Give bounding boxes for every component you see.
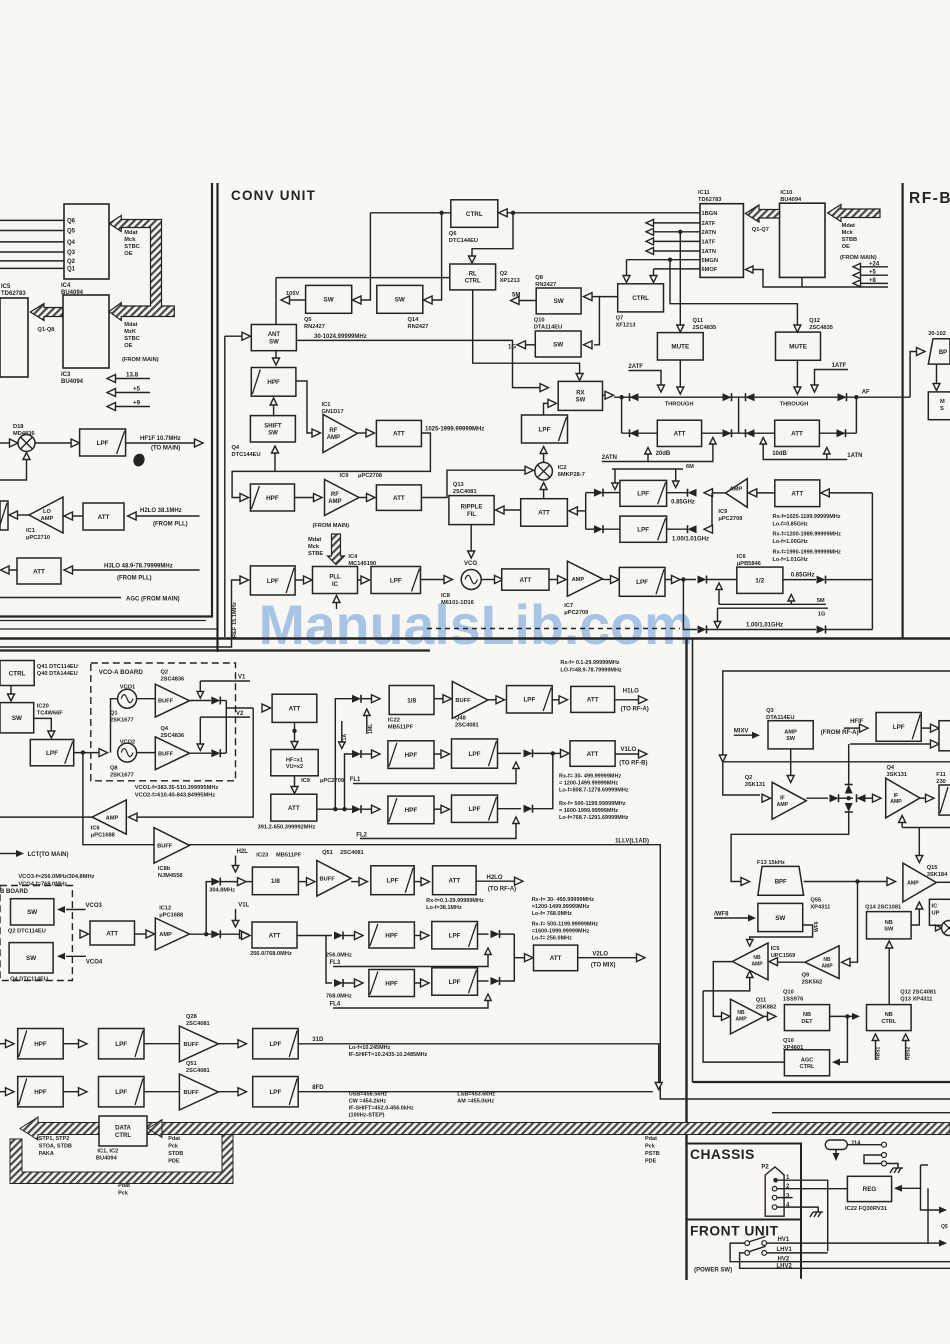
- svg-text:2SC4081: 2SC4081: [340, 850, 364, 856]
- svg-text:H1LO: H1LO: [623, 689, 639, 695]
- svg-text:Q6: Q6: [449, 231, 457, 237]
- dashed net line: [427, 628, 680, 630]
- svg-text:VCO3-f=256.0MHz/304.8MHz: VCO3-f=256.0MHz/304.8MHz: [18, 874, 94, 880]
- svg-text:ATT: ATT: [674, 431, 686, 438]
- wire under Q4: [902, 827, 950, 829]
- svg-text:2SK882: 2SK882: [756, 1005, 777, 1011]
- svg-text:AMP: AMP: [730, 487, 743, 493]
- svg-text:LPF: LPF: [267, 578, 279, 585]
- svg-text:Rx-f= 30- 499.99999MHz: Rx-f= 30- 499.99999MHz: [559, 774, 621, 780]
- svg-text:ATT: ATT: [550, 955, 562, 962]
- svg-text:Q41 DTC114EU: Q41 DTC114EU: [37, 664, 78, 670]
- 31D output line: [298, 1044, 659, 1083]
- svg-text:SW: SW: [27, 909, 37, 916]
- svg-text:Mdat: Mdat: [842, 223, 855, 229]
- wire NB DET down to AGC CTRL: [839, 1016, 847, 1062]
- wire 105V out of SW Q5: [290, 299, 306, 301]
- svg-text:Lo-f=808.7-1278.69999MHz: Lo-f=808.7-1278.69999MHz: [559, 788, 629, 794]
- svg-text:Q6: Q6: [67, 218, 76, 224]
- power switch 1: [745, 1241, 750, 1246]
- svg-text:B BOARD: B BOARD: [0, 889, 29, 895]
- wire RL CTRL to RX SW: [473, 290, 580, 374]
- low pass filter 256MHz: [432, 922, 478, 949]
- attenuator ATT V2LO: [534, 945, 578, 971]
- svg-text:10dB: 10dB: [772, 451, 787, 457]
- high pass filter FL1 row: [388, 741, 434, 769]
- svg-text:256.0/768.0MHz: 256.0/768.0MHz: [250, 951, 292, 957]
- svg-text:μPC2709: μPC2709: [718, 516, 742, 522]
- svg-text:(FROM MAIN): (FROM MAIN): [313, 523, 350, 529]
- svg-text:1BGN: 1BGN: [702, 211, 718, 217]
- svg-text:2ATF: 2ATF: [702, 221, 716, 227]
- NBS1 NBS2 inputs: [875, 1040, 877, 1060]
- svg-text:AMP: AMP: [735, 1017, 747, 1023]
- svg-text:VCO4: VCO4: [86, 960, 103, 966]
- svg-text:1/2: 1/2: [755, 578, 764, 585]
- svg-text:CTRL: CTRL: [466, 211, 483, 218]
- svg-text:D18: D18: [13, 424, 23, 430]
- svg-text:REF 15.1MHz: REF 15.1MHz: [232, 602, 238, 638]
- svg-text:OE: OE: [842, 244, 850, 250]
- middle/right unit separator border: [685, 639, 687, 1281]
- svg-text:Q48: Q48: [455, 716, 466, 722]
- mixer box at right edge: [939, 721, 950, 751]
- svg-text:Q10: Q10: [783, 990, 794, 996]
- J14 arrow down: [835, 1150, 837, 1155]
- MIX SW box RF-B: [928, 392, 950, 420]
- RX SW output diode row THROUGH line 1: [603, 394, 607, 396]
- svg-text:ATT: ATT: [587, 751, 599, 758]
- svg-text:AGC: AGC: [801, 1057, 813, 1063]
- svg-text:Q2: Q2: [500, 271, 508, 277]
- hatched data bus lower loop: [10, 1135, 233, 1184]
- IC UPC box at right edge: [929, 899, 950, 925]
- svg-text:IF: IF: [894, 793, 899, 799]
- svg-text:Pdat: Pdat: [168, 1136, 180, 1142]
- PLL reference wire REF 15.1MHz: [0, 580, 240, 647]
- high pass filter HPF 1: [251, 368, 296, 397]
- svg-text:LPF: LPF: [115, 1089, 127, 1096]
- svg-text:HPF: HPF: [266, 495, 279, 502]
- switch SW Q55 XP4311: [758, 903, 803, 931]
- attenuator ATT after RF AMP: [358, 432, 367, 434]
- LCT output arrow: [0, 853, 16, 855]
- svg-text:2ATN: 2ATN: [702, 230, 716, 236]
- svg-text:6MKP28-7: 6MKP28-7: [558, 472, 585, 478]
- mixer IC2 6MKP28-7: [535, 462, 553, 480]
- svg-text:Q9: Q9: [802, 973, 810, 979]
- svg-text:ATT: ATT: [393, 431, 405, 438]
- filter after Q4: [920, 797, 926, 799]
- svg-text:Q1-Q8: Q1-Q8: [37, 327, 54, 333]
- svg-text:AMP: AMP: [907, 880, 919, 886]
- svg-text:5MGN: 5MGN: [702, 258, 718, 264]
- svg-text:VCO-A BOARD: VCO-A BOARD: [99, 669, 144, 676]
- svg-text:Q5: Q5: [304, 317, 312, 323]
- svg-text:Q4: Q4: [161, 726, 169, 732]
- svg-text:PDE: PDE: [645, 1159, 657, 1165]
- wire AGC CTRL output loop: [703, 991, 784, 1062]
- svg-text:8FD: 8FD: [312, 1085, 324, 1091]
- CONV UNIT bottom border: [0, 637, 950, 640]
- diode 256/768 path: [211, 930, 220, 938]
- svg-text:Lo-f=10.245MHz: Lo-f=10.245MHz: [349, 1045, 391, 1051]
- svg-text:LPF: LPF: [469, 806, 481, 813]
- vertical LO return wire: [871, 493, 873, 630]
- wire VCO to ATT divider chain: [481, 579, 494, 581]
- svg-text:CHASSIS: CHASSIS: [690, 1147, 755, 1162]
- svg-text:DTC144EU: DTC144EU: [232, 452, 261, 458]
- svg-text:FL1: FL1: [350, 777, 361, 783]
- svg-text:391.2-650.399992MHz: 391.2-650.399992MHz: [258, 825, 316, 831]
- switch SW VCO4 select Q4 DTC114EU: [9, 943, 53, 973]
- svg-text:MUTE: MUTE: [671, 344, 689, 351]
- svg-text:VCO4-f=768.0MHz: VCO4-f=768.0MHz: [18, 882, 67, 888]
- svg-text:FL3: FL3: [330, 960, 341, 966]
- svg-text:ATT: ATT: [393, 495, 405, 502]
- wire ATT up into mixer: [543, 490, 545, 499]
- high pass filter HPF 2: [250, 484, 294, 511]
- svg-text:+9: +9: [133, 400, 141, 407]
- shunt diode node: [847, 796, 851, 800]
- svg-text:0.85GHz: 0.85GHz: [671, 500, 695, 506]
- wire 2ATN row to MUTE Q11: [678, 230, 682, 234]
- wire ATT2 output row with branches: [317, 808, 352, 810]
- svg-text:Lo-f=1.00GHz: Lo-f=1.00GHz: [773, 539, 809, 545]
- wire to RL CTRL top: [472, 213, 513, 260]
- svg-text:μPC2709: μPC2709: [564, 610, 588, 616]
- V2 control drop: [200, 716, 250, 718]
- svg-text:LPF: LPF: [269, 1089, 281, 1096]
- svg-text:IC5: IC5: [771, 946, 780, 952]
- svg-text:Lo-f=38.1MHz: Lo-f=38.1MHz: [426, 905, 462, 911]
- switch SW Q14 RN2427: [377, 285, 423, 313]
- svg-text:CTRL: CTRL: [115, 1133, 131, 1139]
- svg-text:BUFF: BUFF: [184, 1042, 200, 1048]
- arrow into PLL IC bottom: [336, 601, 338, 609]
- svg-text:2SC4081: 2SC4081: [453, 489, 477, 495]
- low pass filter H2LO: [351, 881, 359, 883]
- attenuator ATT H1LO: [571, 686, 615, 712]
- svg-text:STBC: STBC: [124, 244, 139, 250]
- wire LPF FL2 join: [498, 808, 522, 810]
- wire LPF up to RX SW: [544, 403, 549, 415]
- svg-text:V1LO: V1LO: [621, 747, 637, 753]
- svg-text:Q28: Q28: [186, 1014, 197, 1020]
- svg-text:STP1, STP2: STP1, STP2: [39, 1136, 70, 1142]
- svg-text:1.00/1.01GHz: 1.00/1.01GHz: [746, 623, 783, 629]
- svg-text:μPC2710: μPC2710: [26, 535, 50, 541]
- svg-text:CTRL: CTRL: [465, 279, 481, 285]
- svg-text:IC1: IC1: [322, 402, 331, 408]
- bus wires into IC4: [0, 219, 64, 221]
- svg-text:LPF: LPF: [636, 579, 648, 586]
- svg-text:Q4 DTC114EU: Q4 DTC114EU: [10, 977, 48, 983]
- svg-text:AMP: AMP: [890, 799, 902, 805]
- power jack contacts: [847, 1144, 881, 1146]
- svg-text:RN2427: RN2427: [408, 324, 429, 330]
- wire to PLL IC: [295, 579, 304, 581]
- divider 1/8 IC22 MB511PF: [389, 686, 434, 715]
- wire 256 LPF output diode: [478, 933, 489, 935]
- svg-text:NBS2: NBS2: [906, 1046, 912, 1060]
- svg-text:HPF: HPF: [405, 752, 418, 759]
- svg-text:BUFF: BUFF: [184, 1090, 200, 1096]
- switch SW IC20 TC4W66F: [0, 703, 34, 733]
- RX SW: [558, 381, 602, 410]
- svg-text:SW: SW: [395, 297, 405, 304]
- wire H2LO input: [128, 512, 137, 520]
- amplifier AMP IC12: [135, 933, 148, 935]
- svg-text:Mck: Mck: [124, 237, 136, 243]
- svg-text:Q8: Q8: [110, 766, 118, 772]
- svg-text:+24: +24: [869, 261, 880, 267]
- svg-text:SW: SW: [554, 298, 564, 305]
- CONV UNIT left border: [216, 183, 218, 652]
- svg-text:ATT: ATT: [98, 514, 110, 521]
- svg-text:UPC1569: UPC1569: [771, 953, 796, 959]
- DATA CTRL box: [99, 1116, 147, 1146]
- svg-text:Q3: Q3: [766, 708, 774, 714]
- svg-text:Q1-Q7: Q1-Q7: [752, 227, 769, 233]
- svg-text:AMP: AMP: [572, 577, 585, 583]
- 8FD output line: [298, 1091, 653, 1093]
- svg-text:2SC4836: 2SC4836: [161, 677, 185, 683]
- svg-text:(FROM PLL): (FROM PLL): [117, 576, 152, 582]
- svg-text:IC6: IC6: [91, 826, 100, 832]
- svg-text:6MOF: 6MOF: [702, 267, 718, 273]
- svg-text:NB: NB: [753, 955, 761, 961]
- svg-text:IC20: IC20: [37, 704, 49, 710]
- svg-text:2ATF: 2ATF: [628, 364, 643, 370]
- svg-text:IC23: IC23: [256, 853, 268, 859]
- wire mixer up to LPF: [543, 454, 545, 463]
- AMP IC9 uPC2709 LO: [726, 479, 748, 508]
- svg-text:VCO1-f=383.35-510.399995MHz: VCO1-f=383.35-510.399995MHz: [135, 785, 219, 791]
- svg-text:HF1F 10.7MHz: HF1F 10.7MHz: [140, 436, 181, 442]
- loop wire ATT1 back to HPF2: [232, 433, 430, 498]
- svg-text:LHV1: LHV1: [777, 1247, 793, 1253]
- svg-text:ATT: ATT: [33, 568, 45, 575]
- svg-text:Q51: Q51: [186, 1061, 197, 1067]
- IC11 output row wires: [654, 222, 700, 224]
- wire VCO buffer outputs join: [225, 701, 227, 754]
- wire control to MUTE Q12: [668, 258, 672, 262]
- svg-text:RX: RX: [576, 391, 584, 397]
- svg-text:BP: BP: [939, 350, 947, 356]
- wire into SW Q5: [353, 296, 362, 304]
- hatched bus arrow Mdat/Mck/STBC into IC4 and IC3: [109, 216, 174, 321]
- svg-text:(TO MAIN): (TO MAIN): [151, 446, 180, 452]
- svg-text:CONV UNIT: CONV UNIT: [231, 188, 316, 203]
- control CTRL Q6 DTC144EU: [451, 200, 498, 228]
- LPF pair 0.85GHz filter: [712, 492, 726, 494]
- RF-B unit left border: [901, 183, 903, 639]
- wire LPF out junction: [665, 579, 696, 581]
- wire LPF FL1 to ATT V1LO: [498, 752, 522, 754]
- svg-text:(100Hz-STEP): (100Hz-STEP): [349, 1113, 385, 1119]
- svg-text:Q2: Q2: [161, 670, 169, 676]
- svg-text:CW =454.2kHz: CW =454.2kHz: [349, 1099, 387, 1105]
- svg-text:LPF: LPF: [115, 1041, 127, 1048]
- svg-text:IC: IC: [332, 582, 339, 588]
- svg-text:LCT(TO MAIN): LCT(TO MAIN): [28, 852, 69, 858]
- svg-text:= 1600-1999.99999MHz: = 1600-1999.99999MHz: [559, 808, 618, 814]
- svg-text:HPF: HPF: [34, 1089, 47, 1096]
- AMP Q15 3SK184: [903, 863, 936, 902]
- ground below P2 pin4: [810, 1212, 823, 1217]
- svg-text:V2: V2: [236, 711, 244, 717]
- svg-text:Mck: Mck: [308, 544, 320, 550]
- svg-text:2SC4836: 2SC4836: [161, 733, 185, 739]
- svg-text:SW: SW: [12, 715, 22, 722]
- svg-text:Q55: Q55: [810, 898, 821, 904]
- svg-text:V1L: V1L: [238, 903, 249, 909]
- multiplier HF=x1 VU=x2 IC9 uPC2709: [271, 750, 318, 776]
- svg-text:1/8: 1/8: [407, 697, 416, 704]
- high pass filter 8FD row input: [6, 1088, 15, 1096]
- wire into mixer D18: [0, 442, 10, 444]
- svg-text:SW: SW: [576, 398, 586, 404]
- svg-text:STBE: STBE: [308, 551, 323, 557]
- svg-text:LPF: LPF: [469, 751, 481, 758]
- svg-text:FL4: FL4: [330, 1002, 341, 1008]
- svg-text:VU=x2: VU=x2: [286, 764, 303, 770]
- wire AMP IC12 output junction: [190, 933, 212, 935]
- wire to ATT V2LO: [514, 957, 525, 959]
- svg-text:3SK131: 3SK131: [887, 772, 908, 778]
- bus wire IF: [723, 761, 950, 763]
- low pass filter 8FD out: [218, 1091, 238, 1093]
- VCO-A BOARD dashed box: [91, 663, 236, 781]
- svg-text:105V: 105V: [286, 291, 299, 297]
- svg-text:Q13 XP4311: Q13 XP4311: [900, 997, 932, 1003]
- svg-text:Q10: Q10: [534, 318, 545, 324]
- svg-text:=1200-1499.99999MHz: =1200-1499.99999MHz: [532, 904, 590, 910]
- svg-text:Q1: Q1: [110, 711, 118, 717]
- svg-text:AMP: AMP: [751, 962, 763, 968]
- svg-text:(FROM MAIN): (FROM MAIN): [122, 357, 159, 363]
- svg-text:2SC4081: 2SC4081: [186, 1021, 210, 1027]
- wire 1LLV(L1AD) line: [190, 845, 950, 1099]
- svg-text:(TO RF-A): (TO RF-A): [488, 887, 516, 893]
- svg-text:AMP: AMP: [328, 499, 341, 505]
- diode switches left of LPF pair: [594, 489, 603, 497]
- diode 304.8MHz path: [211, 878, 220, 886]
- svg-text:MzK: MzK: [124, 329, 137, 335]
- svg-text:MIXV: MIXV: [734, 729, 749, 735]
- svg-text:THROUGH: THROUGH: [665, 402, 694, 408]
- svg-text:STBC: STBC: [124, 336, 139, 342]
- low pass filter after AMP IC7: [603, 579, 611, 581]
- svg-text:RIPPLE: RIPPLE: [461, 505, 483, 511]
- svg-text:Q1: Q1: [67, 266, 76, 272]
- svg-text:230: 230: [936, 779, 946, 785]
- svg-text:HFIF: HFIF: [850, 719, 864, 725]
- svg-text:AMP: AMP: [106, 816, 119, 822]
- power switch 2: [745, 1251, 750, 1256]
- svg-text:2ATN: 2ATN: [602, 455, 617, 461]
- wire ATT to RIPPLE FIL: [503, 509, 521, 511]
- svg-text:RF: RF: [331, 492, 339, 498]
- svg-text:+8: +8: [869, 278, 877, 284]
- right IF unit borders: [692, 639, 694, 1083]
- low pass filter VCO control: [30, 740, 73, 766]
- wire diode to HPF 256 row: [297, 935, 332, 937]
- svg-text:ATT: ATT: [288, 805, 300, 812]
- svg-text:1G: 1G: [508, 345, 516, 351]
- buffer BUFF IC8b NJM4558: [154, 828, 190, 864]
- bus wire below left unit: [0, 628, 218, 630]
- attenuator ATT x2 output: [271, 794, 317, 821]
- wire IC11 return: [753, 270, 888, 288]
- svg-text:H2LO 38.1MHz: H2LO 38.1MHz: [140, 508, 182, 514]
- 5M output of SW Q8: [519, 300, 536, 302]
- svg-text:Mdat: Mdat: [124, 230, 137, 236]
- NB AMP Q9 2SK562: [805, 946, 839, 979]
- svg-text:μPC2708: μPC2708: [358, 473, 382, 479]
- svg-text:LPF: LPF: [893, 724, 905, 731]
- svg-text:ATT: ATT: [587, 697, 599, 704]
- svg-text:H3LO 48.9-78.79999MHz: H3LO 48.9-78.79999MHz: [104, 564, 173, 570]
- svg-text:Pdat: Pdat: [645, 1136, 657, 1142]
- wire CTRL Q7 to SW Q8 and SW Q10: [594, 297, 618, 345]
- CHASSIS box: [687, 1144, 802, 1279]
- svg-text:HPF: HPF: [385, 932, 398, 939]
- svg-text:2SC4081: 2SC4081: [186, 1068, 210, 1074]
- svg-text:IC1, IC2: IC1, IC2: [97, 1149, 118, 1155]
- low pass filter 8FD row: [63, 1091, 79, 1093]
- svg-text:OE: OE: [124, 251, 132, 257]
- svg-text:S: S: [940, 406, 944, 412]
- svg-text:Q11: Q11: [756, 998, 766, 1004]
- svg-text:30-1024.99999MHz: 30-1024.99999MHz: [314, 334, 367, 340]
- svg-text:Rx-f=0.1-29.99999MHz: Rx-f=0.1-29.99999MHz: [426, 898, 484, 904]
- SHIFT SW Q4 DTC144EU: [250, 416, 295, 442]
- svg-text:BUFF: BUFF: [157, 844, 173, 850]
- svg-text:Mck: Mck: [842, 230, 854, 236]
- wire AMP IC6 input from VCO junction: [138, 708, 254, 817]
- wire ATT2 up to mixer IC2: [421, 470, 525, 497]
- arrow into HPF1 from below: [273, 405, 275, 416]
- attenuator ATT (H3LO): [1, 566, 10, 574]
- left PLL unit border: [0, 183, 212, 617]
- MUTE Q12 output arrows: [796, 360, 798, 388]
- low pass filter FL1 row: [452, 739, 498, 768]
- wire NB SW up to AMP Q15: [911, 908, 919, 925]
- wire SW to LPF: [34, 718, 52, 731]
- svg-text:1ATF: 1ATF: [832, 363, 847, 369]
- svg-text:304.8MHz: 304.8MHz: [209, 888, 235, 894]
- svg-text:Pdat: Pdat: [118, 1183, 130, 1189]
- svg-text:AGC (FROM MAIN): AGC (FROM MAIN): [126, 597, 180, 603]
- svg-text:Q12 2SC4081: Q12 2SC4081: [900, 990, 936, 996]
- svg-text:IC5: IC5: [1, 284, 11, 290]
- svg-text:SW: SW: [775, 915, 785, 922]
- wire into ATT from LPF pair: [569, 507, 578, 515]
- svg-text:Q51: Q51: [322, 850, 333, 856]
- svg-text:GN1D17: GN1D17: [322, 409, 344, 415]
- low pass filter HFIF: [876, 713, 921, 742]
- svg-text:FIL: FIL: [467, 512, 476, 518]
- wire AMP SW down to IF AMP Q2: [790, 749, 792, 776]
- svg-text:XP4311: XP4311: [810, 905, 830, 911]
- svg-text:VCO2-f=610.40-843.84995MHz: VCO2-f=610.40-843.84995MHz: [135, 793, 216, 799]
- wire REG to HV1 net: [927, 1188, 929, 1243]
- wire IC5 output loop to Q11: [713, 962, 732, 1017]
- svg-text:TD62783: TD62783: [698, 197, 721, 203]
- svg-text:30-102: 30-102: [928, 331, 946, 337]
